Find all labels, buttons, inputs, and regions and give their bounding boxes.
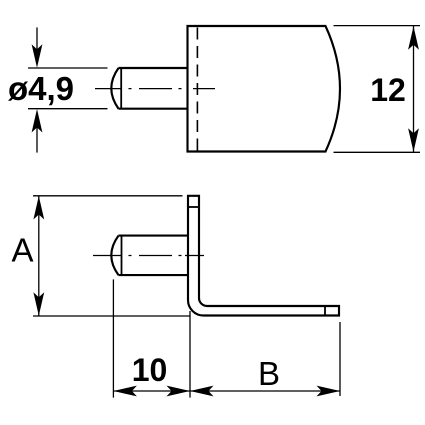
dim line A [38, 196, 40, 316]
pin dome tangent line (bottom view) [121, 236, 123, 276]
arrowhead B right (right) [317, 386, 341, 397]
arrowhead B left (left) [190, 386, 214, 397]
dim line 12 [413, 26, 415, 152]
dim line dia bottom arrow tail [36, 127, 38, 153]
svg-text:10: 10 [132, 352, 168, 388]
centerline (top view) [95, 88, 215, 90]
arrowhead 12 top (up) [408, 26, 419, 50]
arrowhead 10 left (left) [113, 386, 136, 397]
dim line 10 and B [113, 390, 340, 392]
extension line 10/B middle [189, 311, 191, 398]
extension line B right [339, 322, 341, 396]
pin dome arc (bottom view) [111, 236, 118, 276]
pin top edge (bottom view) [119, 235, 189, 237]
extension line 12 bottom [334, 151, 421, 153]
extension line dia bottom [28, 108, 108, 110]
arrowhead 12 bottom (down) [408, 128, 419, 152]
arrowhead 10 right (right) [167, 386, 191, 397]
bracket leg end tick [324, 306, 326, 316]
arrowhead dia top (down) [32, 44, 43, 68]
extension line 12 top [334, 25, 421, 27]
arrowhead A top (up) [33, 196, 44, 220]
arrowhead A bottom (down) [33, 292, 44, 316]
svg-text:B: B [258, 355, 280, 392]
pin top edge (top view) [119, 67, 188, 69]
centerline (bottom view) [93, 255, 204, 257]
arrowhead dia bottom (up) [32, 109, 43, 133]
bracket strip edge tick [188, 206, 199, 208]
extension line 10 left [112, 279, 114, 397]
cylinder body (top view) [188, 26, 341, 152]
svg-text:12: 12 [370, 72, 406, 108]
dim line dia top arrow tail [36, 27, 38, 50]
svg-text:ø4,9: ø4,9 [8, 70, 74, 107]
extension line A top [33, 195, 183, 197]
pin bottom edge (bottom view) [119, 274, 189, 276]
extension line A bottom [33, 315, 191, 317]
extension line dia top [28, 67, 108, 69]
svg-text:A: A [11, 232, 33, 269]
pin dome arc (top view) [111, 68, 118, 109]
pin bottom edge (top view) [119, 108, 188, 110]
pin dome tangent line (top view) [120, 68, 122, 109]
L-bracket outline (bottom view) [188, 196, 339, 316]
hidden dashed line (cylinder left inset) [196, 28, 198, 151]
